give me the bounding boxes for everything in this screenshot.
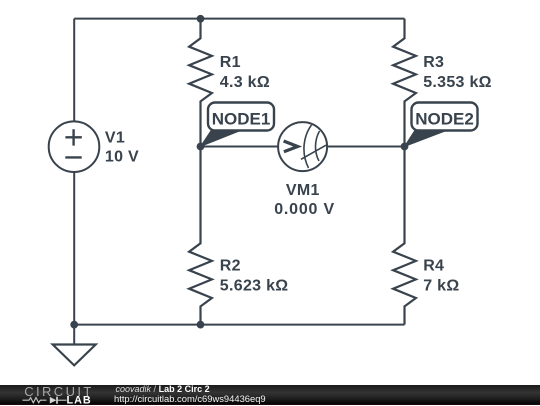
footer title line (116, 385, 210, 394)
ground (53, 345, 96, 366)
wire voltmeter to node2 (327, 146, 405, 148)
wire left branch lower (73, 172, 75, 325)
resistor R2 (189, 147, 212, 325)
footer bar (0, 385, 540, 405)
resistor R1 (189, 19, 212, 147)
svg-text:NODE1: NODE1 (212, 110, 271, 129)
svg-text:V1: V1 (105, 130, 125, 147)
svg-text:LAB: LAB (67, 394, 92, 405)
svg-text:5.623 kΩ: 5.623 kΩ (220, 277, 289, 294)
voltmeter VM1 (278, 122, 327, 171)
wire bottom rail (74, 324, 404, 326)
CircuitLab logo (0, 385, 110, 406)
svg-text:R2: R2 (220, 258, 241, 275)
wire node1 to voltmeter (201, 146, 279, 148)
wire top rail (74, 18, 404, 20)
node junction dot bottom left (70, 321, 78, 329)
node junction dot top of R1 (197, 15, 205, 23)
svg-text:4.3 kΩ: 4.3 kΩ (220, 74, 270, 91)
node junction dot bottom of R2 (197, 321, 205, 329)
svg-text:NODE2: NODE2 (415, 110, 474, 129)
node NODE2 junction dot (401, 143, 409, 151)
svg-text:R4: R4 (423, 258, 444, 275)
node NODE1 junction dot (197, 143, 205, 151)
node NODE1 flag (201, 103, 275, 147)
resistor R4 (393, 147, 416, 325)
wire left branch upper (73, 19, 75, 122)
resistor R3 (393, 19, 416, 147)
footer url line (114, 394, 266, 403)
svg-text:0.000 V: 0.000 V (274, 201, 335, 218)
wire ground stub (73, 325, 75, 345)
voltage source V1 (49, 121, 100, 172)
svg-text:VM1: VM1 (286, 182, 320, 199)
svg-text:7 kΩ: 7 kΩ (423, 277, 459, 294)
svg-text:5.353 kΩ: 5.353 kΩ (423, 74, 492, 91)
svg-text:R1: R1 (220, 54, 241, 71)
svg-text:10 V: 10 V (105, 149, 139, 166)
node NODE2 flag (405, 103, 478, 147)
svg-text:R3: R3 (423, 54, 444, 71)
